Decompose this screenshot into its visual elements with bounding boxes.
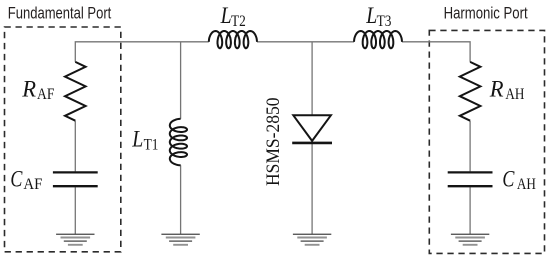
- svg-text:HSMS-2850: HSMS-2850: [263, 98, 284, 187]
- svg-text:T2: T2: [231, 11, 246, 30]
- svg-text:C: C: [10, 166, 22, 192]
- resistor RAH: [460, 62, 481, 121]
- wire RAF to CAF: [74, 121, 76, 172]
- wire between LT2 and LT3: [257, 41, 354, 43]
- svg-text:T1: T1: [144, 134, 159, 153]
- diode HSMS-2850: [293, 115, 331, 141]
- Fundamental Port box: [5, 27, 121, 252]
- svg-text:Harmonic Port: Harmonic Port: [444, 5, 528, 23]
- wire RAH to CAH: [469, 121, 471, 172]
- ground diode: [293, 234, 331, 245]
- capacitor CAH: [448, 171, 493, 173]
- svg-text:AH: AH: [505, 84, 524, 103]
- svg-text:T3: T3: [377, 11, 392, 30]
- svg-text:AH: AH: [517, 174, 536, 193]
- capacitor CAF: [53, 171, 98, 173]
- inductor LT2: [209, 31, 257, 48]
- svg-text:L: L: [220, 3, 232, 29]
- ground LT1: [161, 234, 199, 245]
- inductor LT3: [354, 31, 402, 48]
- Harmonic Port box: [429, 30, 544, 253]
- resistor RAF: [65, 62, 86, 121]
- svg-text:AF: AF: [37, 84, 54, 103]
- inductor LT1: [170, 119, 187, 166]
- svg-text:C: C: [502, 166, 514, 192]
- wire node to LT1: [180, 42, 182, 119]
- svg-text:L: L: [131, 127, 143, 153]
- svg-text:L: L: [365, 3, 377, 29]
- svg-text:R: R: [489, 77, 504, 103]
- ground harmonic: [451, 234, 489, 245]
- wire top-right segment: [402, 42, 470, 62]
- wire CAH to ground: [469, 187, 471, 234]
- wire LT1 to ground: [180, 165, 182, 234]
- wire diode to ground: [311, 143, 313, 234]
- svg-text:R: R: [21, 77, 36, 103]
- wire CAF to ground: [74, 187, 76, 234]
- wire node to diode: [311, 42, 313, 116]
- ground fundamental: [56, 234, 94, 245]
- svg-text:AF: AF: [23, 174, 42, 193]
- svg-text:Fundamental Port: Fundamental Port: [8, 5, 112, 23]
- wire top-left segment: [75, 42, 209, 62]
